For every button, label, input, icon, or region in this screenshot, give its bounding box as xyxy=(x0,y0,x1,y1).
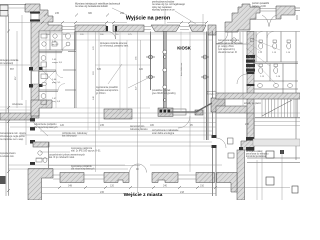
entrance double door arcs bottom xyxy=(130,164,147,187)
ramp edge polyline xyxy=(170,103,212,112)
svg-text:zamurowanie istn. otworu: zamurowanie istn. otworu xyxy=(0,132,27,135)
stair break line xyxy=(262,100,292,116)
tiny annotation under kiosk base xyxy=(130,125,148,131)
bottom-left vestibule walls xyxy=(30,142,49,168)
corridor door arc xyxy=(237,74,247,84)
svg-text:260: 260 xyxy=(120,12,125,15)
left wall thin vertical lines xyxy=(6,16,9,196)
svg-text:opisy wg zestawien: opisy wg zestawien xyxy=(152,6,173,9)
svg-text:tynk wewnetrzny: tynk wewnetrzny xyxy=(218,48,236,51)
svg-text:gr. 15mm: gr. 15mm xyxy=(96,92,106,95)
stair treads xyxy=(262,99,297,117)
toilet fixtures xyxy=(232,38,293,88)
leader top-left annotation xyxy=(112,8,196,24)
svg-text:Wyjście na peron: Wyjście na peron xyxy=(126,16,170,22)
corridor door jambs xyxy=(247,72,255,86)
top wall pier 5 trapezoid xyxy=(189,25,206,32)
left rooms partition 1 xyxy=(39,52,76,53)
tiny annotation top-center xyxy=(152,1,186,12)
lower right L wall xyxy=(241,113,254,150)
top wall pier 2 xyxy=(75,25,106,32)
top-left small rooms xyxy=(39,32,75,51)
svg-text:230: 230 xyxy=(245,123,250,126)
hall right wall hatched block xyxy=(211,98,225,112)
corridor wall door jambs lower xyxy=(239,137,254,151)
dimension chain vertical x189 xyxy=(190,32,204,173)
tiny annotation top-right xyxy=(252,3,270,8)
svg-text:umyw. 3,8: umyw. 3,8 xyxy=(52,62,63,64)
toilets walls xyxy=(254,32,298,161)
fixtures top-left rooms xyxy=(52,33,70,46)
left wall door jambs mid xyxy=(29,67,43,88)
svg-text:kasa biletowa: kasa biletowa xyxy=(180,62,183,76)
dimension ticks top chain xyxy=(41,21,208,24)
label Wejscie z miasta xyxy=(124,192,163,198)
left rooms partition 3 xyxy=(39,90,76,91)
svg-text:240: 240 xyxy=(163,185,168,188)
toilet room labels xyxy=(258,52,291,78)
svg-text:236: 236 xyxy=(100,191,105,194)
rotated dim numbers x95 xyxy=(15,46,138,100)
toilet door arcs top xyxy=(256,32,274,39)
bottom wall pier 4 xyxy=(196,173,215,183)
door swing diagonal xyxy=(33,122,48,136)
kiosk wall left partition xyxy=(150,32,152,91)
leader lines toilets xyxy=(246,38,280,84)
svg-text:wykucie otworu: wykucie otworu xyxy=(0,152,16,155)
svg-text:245: 245 xyxy=(55,12,60,15)
entrance double door arcs xyxy=(262,15,276,27)
stair side walls xyxy=(255,117,300,119)
platform roof gray band xyxy=(253,139,300,146)
svg-text:wc 4,2: wc 4,2 xyxy=(52,44,59,46)
svg-text:warstwa samopoziom.: warstwa samopoziom. xyxy=(96,89,119,92)
svg-text:oczyszczenie i malowanie: oczyszczenie i malowanie xyxy=(152,130,179,132)
tiny annotation center xyxy=(152,89,176,95)
left rooms fixtures xyxy=(41,34,48,105)
door arc partition 1 xyxy=(62,46,69,53)
svg-text:zabudowy kiosku: zabudowy kiosku xyxy=(130,129,148,131)
svg-text:do renowacji, parapety kam.: do renowacji, parapety kam. xyxy=(100,45,129,48)
rotated label center xyxy=(180,62,183,76)
svg-text:rozebranie: rozebranie xyxy=(12,103,24,106)
corridor wall horizontal xyxy=(216,106,254,113)
left edge window block xyxy=(0,5,8,16)
bottom wall window lines xyxy=(53,175,196,179)
bottom wall pier 2 with notch xyxy=(104,173,129,183)
svg-text:kas biletowych: kas biletowych xyxy=(62,135,78,138)
left wall door opening white xyxy=(32,71,39,84)
tiny annotation left margin 1 xyxy=(0,59,19,65)
left wall lower door jambs xyxy=(30,118,35,144)
svg-text:gres 30x30 antyposlizg: gres 30x30 antyposlizg xyxy=(152,92,176,95)
door hall to corridor arc xyxy=(216,32,228,44)
kiosk counter white box xyxy=(173,109,186,115)
annotation leaders bottom-left xyxy=(36,152,140,165)
svg-text:posadzka z plytek: posadzka z plytek xyxy=(152,89,171,92)
kiosk glazed wall gray bar xyxy=(163,32,166,109)
svg-text:porz. 5,1: porz. 5,1 xyxy=(52,81,61,84)
svg-text:KIOSK: KIOSK xyxy=(177,45,192,50)
hall right wall xyxy=(213,31,217,196)
bottom-left corner wall xyxy=(28,169,53,201)
svg-text:konstrukcja stalowa: konstrukcja stalowa xyxy=(246,155,267,158)
hall south wall extension to left edge xyxy=(0,113,31,120)
small dark square right xyxy=(280,150,284,154)
dimension chain vertical right xyxy=(257,150,282,200)
svg-text:420: 420 xyxy=(139,68,144,71)
kiosk partition posts xyxy=(146,55,155,79)
dimension cluster center horizontals xyxy=(0,113,300,146)
door jamb right wall lower xyxy=(212,135,217,148)
svg-text:120: 120 xyxy=(110,185,115,188)
tiny annotation under band center xyxy=(100,42,129,48)
platform column bases xyxy=(266,151,298,193)
bottom right block xyxy=(217,150,245,200)
tiny annotation left margin 2 xyxy=(0,103,27,141)
dimension numbers under band xyxy=(46,34,132,36)
tiny annotation center-left hall xyxy=(96,86,119,95)
left rooms tiny labels xyxy=(52,41,63,103)
wall top-left outer lines xyxy=(0,5,26,9)
svg-text:na nowe wg rys. szczegolowego: na nowe wg rys. szczegolowego xyxy=(152,3,186,6)
tiny annotation center-bottom xyxy=(152,130,179,135)
vestibule fixtures xyxy=(36,151,47,163)
wall top-right block B xyxy=(276,6,300,20)
svg-text:kat. III po robotach instal.: kat. III po robotach instal. xyxy=(49,156,75,159)
svg-text:Wymiana istniejacych swietliko: Wymiana istniejacych swietlikow dachowyc… xyxy=(75,2,121,5)
top wall pier 3 xyxy=(113,25,144,32)
svg-text:obustronnie kat. III: obustronnie kat. III xyxy=(218,51,237,54)
svg-text:na nowe wg zestawienia stolark: na nowe wg zestawienia stolarki xyxy=(75,5,108,8)
svg-text:348: 348 xyxy=(68,185,73,188)
tiny annotation mid strip xyxy=(62,132,88,138)
svg-text:odtworzenie podjazdu: odtworzenie podjazdu xyxy=(34,123,57,126)
extra dimension verticals hall xyxy=(46,32,181,131)
tiny annotation bottom-mid xyxy=(34,123,58,129)
tiny annotation stairs xyxy=(244,102,262,105)
corridor top thin lines xyxy=(216,20,300,32)
dimension line bottom xyxy=(8,165,290,194)
annotation near right wall xyxy=(207,91,217,96)
dimension ticks xyxy=(7,14,217,193)
top wall pier 4 trapezoid xyxy=(151,25,180,32)
svg-text:stal. 2x IPE 160 wg rys. K-01: stal. 2x IPE 160 wg rys. K-01 xyxy=(71,150,101,153)
svg-text:635: 635 xyxy=(97,68,102,71)
svg-text:w scianie istn.: w scianie istn. xyxy=(0,155,15,158)
platform lines right xyxy=(247,158,300,163)
door swing diagonals hall left xyxy=(42,70,56,84)
svg-text:cegla pelna na zaprawie: cegla pelna na zaprawie xyxy=(218,42,243,45)
leader center-left xyxy=(108,64,148,88)
wall top-left corner xyxy=(25,4,62,118)
landing lines right xyxy=(254,122,300,126)
svg-text:120: 120 xyxy=(60,124,65,127)
svg-text:zamurowanie otworu: zamurowanie otworu xyxy=(218,39,240,42)
bottom wall pier 1 xyxy=(60,173,84,183)
svg-text:scian farba emulsyjna: scian farba emulsyjna xyxy=(152,132,175,135)
svg-text:wymiary podane w cm: wymiary podane w cm xyxy=(152,8,175,11)
dimension chain vertical left margin xyxy=(9,14,27,195)
svg-text:dla niepelnosprawnych: dla niepelnosprawnych xyxy=(71,168,95,171)
left margin dark mark xyxy=(0,176,6,184)
dimension chain vertical x137 xyxy=(138,32,141,194)
hall axis posts right xyxy=(201,55,209,79)
left wall bottom corner xyxy=(31,100,52,116)
left rooms east wall xyxy=(75,32,77,109)
tiny annotation right-bottom xyxy=(246,150,269,158)
svg-text:drzwiowego cegla pelna: drzwiowego cegla pelna xyxy=(0,135,25,138)
corridor vertical wall xyxy=(247,32,254,151)
svg-text:218: 218 xyxy=(180,191,185,194)
interior hall lines xyxy=(0,33,212,110)
svg-text:gr. sciany 25cm: gr. sciany 25cm xyxy=(218,45,234,48)
tiny annotation bottom-left block xyxy=(49,147,101,159)
kiosk base block left xyxy=(104,109,132,119)
small room fixture bottom-right xyxy=(228,138,235,158)
kiosk door arc xyxy=(178,116,190,128)
svg-text:parteru +0,00: parteru +0,00 xyxy=(252,5,266,8)
tiny annotation right-of-door xyxy=(218,39,243,54)
left wall upper door opening xyxy=(30,12,40,22)
svg-text:857: 857 xyxy=(10,68,15,71)
svg-text:istniejaca stolarka: istniejaca stolarka xyxy=(0,59,19,62)
svg-text:380: 380 xyxy=(88,12,93,15)
corridor wall shaft dark stack xyxy=(246,55,255,72)
small hatched piece right xyxy=(195,110,203,115)
label KIOSK xyxy=(177,45,192,50)
door arc partition 3 xyxy=(58,84,65,91)
svg-text:dla niepelnosprawnych: dla niepelnosprawnych xyxy=(34,126,58,129)
svg-text:310: 310 xyxy=(200,185,205,188)
dimension numbers xyxy=(10,12,250,194)
tiny annotation bottom-center block xyxy=(71,166,95,171)
kiosk base block with posts xyxy=(158,108,173,116)
left margin leader 1 xyxy=(0,64,30,66)
dimension chain vertical x95 xyxy=(96,32,100,173)
kiosk wall posts xyxy=(163,50,167,101)
svg-text:poziom posadzki: poziom posadzki xyxy=(252,3,270,5)
corridor partitions upper xyxy=(216,32,247,44)
svg-text:180: 180 xyxy=(150,124,155,127)
window lines top wall xyxy=(62,27,189,30)
bottom wall pier 3 with notch xyxy=(152,173,178,183)
svg-text:schody na pietro: schody na pietro xyxy=(244,102,262,105)
door top wall with arc xyxy=(106,26,117,39)
door arc partition 2 xyxy=(56,71,63,78)
svg-text:przebudowa schodow: przebudowa schodow xyxy=(152,1,175,4)
door arc right wall lower xyxy=(216,138,226,148)
window gap top-right xyxy=(260,9,276,12)
svg-text:Wejście z miasta: Wejście z miasta xyxy=(124,192,163,198)
svg-text:wyrownanie posadzki: wyrownanie posadzki xyxy=(96,86,118,89)
label Wyjscie na peron xyxy=(126,16,170,22)
svg-text:socj. 6,3: socj. 6,3 xyxy=(52,101,61,103)
svg-text:245: 245 xyxy=(100,124,105,127)
dimension chain vertical x203 xyxy=(203,14,243,106)
wall top-right block A stepped xyxy=(225,4,260,32)
left rooms partition 2 xyxy=(39,70,76,71)
stairs wall band xyxy=(216,93,300,99)
tiny annotation top-left xyxy=(75,2,121,8)
kiosk right wall xyxy=(207,32,209,141)
dimension line top xyxy=(8,22,207,24)
tiny annotation left margin 3 xyxy=(0,152,16,158)
svg-text:na zaprawie cem.-wap.: na zaprawie cem.-wap. xyxy=(0,138,24,141)
top wall corner pier right xyxy=(208,25,216,35)
svg-text:do renowacji: do renowacji xyxy=(0,62,13,65)
